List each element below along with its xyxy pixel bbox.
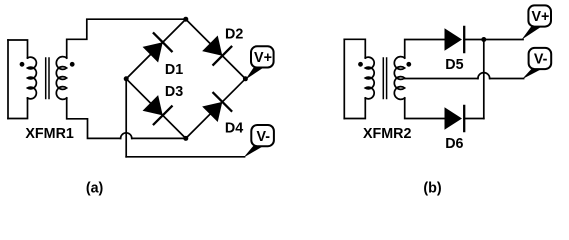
diode D1 — [143, 33, 172, 62]
node: bridge right — [243, 76, 248, 81]
wire: V- rail — [126, 156, 244, 158]
phase dot XFMR1 secondary — [70, 62, 75, 67]
wire: D6 cathode to right riser — [464, 118, 484, 120]
wire: XFMR2 center tap — [405, 78, 478, 80]
diode D6 — [445, 106, 465, 131]
transformer XFMR2 primary winding — [365, 57, 374, 99]
svg-text:XFMR1: XFMR1 — [25, 126, 74, 142]
transformer XFMR1 primary winding — [28, 57, 37, 99]
wire: XFMR1 primary top lead — [8, 40, 28, 58]
phase dot XFMR2 secondary — [406, 62, 411, 67]
wire: XFMR1 primary bottom lead — [8, 98, 28, 119]
net flag V+ tail — [522, 26, 542, 40]
wire hop over junction drop — [478, 73, 490, 79]
wire: bridge edge bottom-right — [186, 79, 246, 139]
net flag V- tail — [522, 69, 542, 80]
diode D2 — [202, 36, 231, 65]
transformer XFMR1 secondary winding — [56, 57, 66, 100]
diode D4 — [202, 93, 231, 122]
svg-text:XFMR2: XFMR2 — [363, 126, 412, 142]
svg-text:V+: V+ — [254, 50, 272, 66]
node: bridge bottom — [183, 136, 188, 141]
svg-text:D4: D4 — [225, 121, 243, 137]
svg-text:D5: D5 — [445, 57, 463, 73]
diode D3 — [143, 95, 172, 124]
net flag V- — [529, 48, 552, 69]
transformer XFMR1 core — [46, 58, 49, 99]
svg-text:D3: D3 — [165, 84, 183, 100]
node: D5 cathode junction — [481, 37, 486, 42]
phase dot XFMR2 primary — [358, 62, 363, 67]
wire: bridge edge left-top — [126, 19, 186, 79]
wire: D5 cathode to junction and V+ tail — [464, 39, 523, 41]
svg-text:(b): (b) — [423, 181, 441, 197]
net flag V+ — [251, 46, 274, 67]
wire: bridge edge left-bottom — [126, 79, 186, 139]
wire: into bridge bottom node — [132, 137, 186, 139]
node: bridge left — [124, 76, 129, 81]
wire: XFMR1 secondary top lead to bridge top — [67, 19, 186, 58]
svg-text:V-: V- — [534, 52, 548, 68]
svg-text:V+: V+ — [531, 9, 549, 25]
wire: bridge edge top-right — [186, 19, 246, 79]
wire: center tap to V- tail — [490, 78, 524, 80]
wire: XFMR2 primary left rail — [343, 39, 345, 118]
node: bridge top — [183, 17, 188, 22]
svg-text:D2: D2 — [225, 27, 243, 43]
wire: XFMR1 secondary bottom lead — [67, 98, 121, 138]
net flag V+ tail — [245, 67, 264, 80]
transformer XFMR2 core — [383, 58, 386, 99]
net flag V- tail — [244, 146, 264, 158]
svg-text:(a): (a) — [86, 181, 104, 197]
diode D5 — [445, 27, 465, 52]
svg-text:D1: D1 — [165, 62, 183, 78]
net flag V+ — [528, 5, 551, 26]
net flag V- — [251, 125, 274, 146]
wire: XFMR2 primary top lead — [344, 39, 365, 58]
svg-text:V-: V- — [257, 129, 271, 145]
wire: XFMR2 secondary top lead — [405, 40, 445, 59]
wire: XFMR2 secondary bottom lead — [405, 98, 444, 119]
transformer XFMR2 secondary winding — [394, 57, 404, 100]
wire: left node down to V- rail — [125, 79, 127, 157]
wire: junction down the right side — [483, 40, 485, 119]
wire: XFMR1 primary left rail — [7, 40, 9, 119]
svg-text:D6: D6 — [445, 136, 463, 152]
wire hop over V- wire — [121, 133, 132, 139]
wire: XFMR2 primary bottom lead — [344, 98, 365, 119]
phase dot XFMR1 primary — [20, 62, 25, 67]
